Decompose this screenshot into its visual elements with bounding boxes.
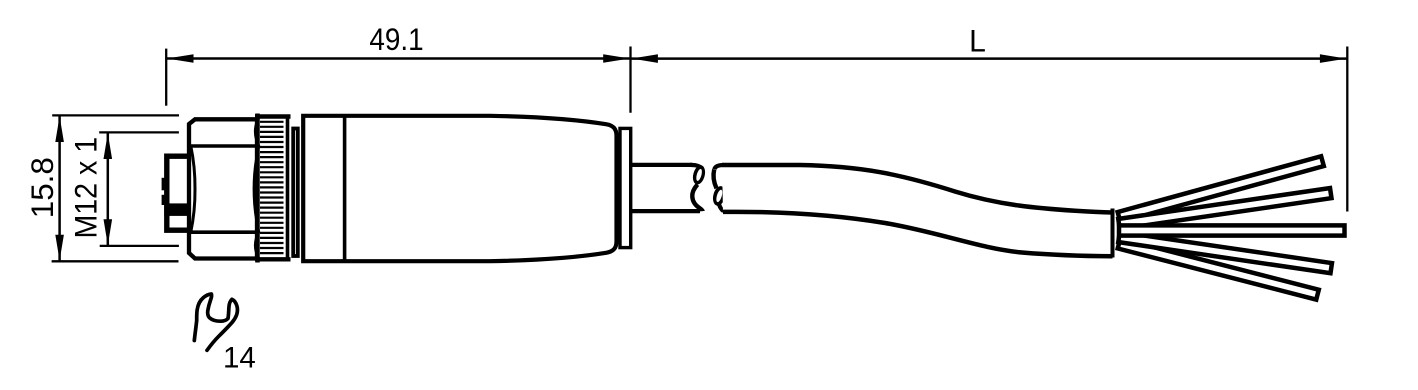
svg-text:15.8: 15.8 [25,157,60,218]
knurled ring right face line [286,115,290,262]
svg-text:49.1: 49.1 [369,23,423,58]
dimension M12x1 bottom arrowhead [104,219,113,245]
shared extension line between 49.1 and L [629,47,631,113]
dimension M12x1 bottom extension line [100,245,179,247]
dimension 15.8 line [58,115,61,261]
cable stub bottom edge [631,209,700,213]
connector front tip barrel [167,156,191,230]
wire 2 [1118,188,1331,229]
main cable jacket [722,165,1113,256]
connector tip left nub lower [162,195,165,205]
knurled ring bottom edge [255,257,291,261]
cable stub top edge [631,163,692,167]
cable break left curl corner [690,165,703,170]
dimension 15.8 top arrowhead [55,116,64,142]
dimension L right arrowhead [1320,54,1347,63]
dimension L extension line right [1346,47,1348,212]
cable break right curl loop [711,185,727,207]
wrench icon [194,294,237,350]
dimension 15.8 bottom extension line [52,260,179,262]
cable break right curl corner [714,165,724,169]
body section divider line [343,116,347,261]
wire 1 (top) [1118,156,1324,222]
svg-text:14: 14 [223,342,256,375]
cable break left curl tail [692,185,702,212]
cable bottom edge [723,212,1113,256]
hex nut right face line [255,114,260,263]
dimension M12x1 top extension line [99,131,179,133]
dimension M12x1 top arrowhead [104,133,113,159]
hex facet side arc (left) [191,146,195,232]
connector tip left nub upper [162,178,165,191]
cable break left curl loop [691,164,707,186]
hex nut upper facet line [191,144,258,148]
dimension 49.1 left arrowhead [167,54,194,63]
connector main body [303,116,616,261]
dimension 15.8 top extension line [52,114,179,116]
dimension 49.1 line [166,57,630,60]
connector tip lower black band [164,203,191,216]
hex nut lower facet line [191,230,258,234]
knurled ring background [257,115,291,262]
svg-text:L: L [969,23,986,59]
hex nut body [189,119,257,258]
cable top edge [722,165,1113,213]
dimension L left arrowhead [631,54,658,63]
cable break right curl exit [719,204,724,211]
neck ring between knurl and body [293,129,298,257]
cable break right curl descent [714,170,717,189]
dimension L line [631,57,1348,60]
knurl hatching [260,122,284,253]
wire 3 (middle) [1119,225,1345,235]
cable jacket end face [1111,209,1115,258]
wire 5 (bottom) [1118,239,1319,300]
dimension M12x1 line [107,132,110,246]
connector back cap [620,128,631,247]
svg-text:M12 x 1: M12 x 1 [69,137,104,239]
knurled ring top edge [255,114,291,118]
wire 4 [1118,232,1332,273]
knurl left silhouette curve [254,118,259,259]
dimension 49.1 right arrowhead [603,54,630,63]
dimension 49.1 extension line left [165,49,167,106]
dimension 15.8 bottom arrowhead [55,235,64,261]
